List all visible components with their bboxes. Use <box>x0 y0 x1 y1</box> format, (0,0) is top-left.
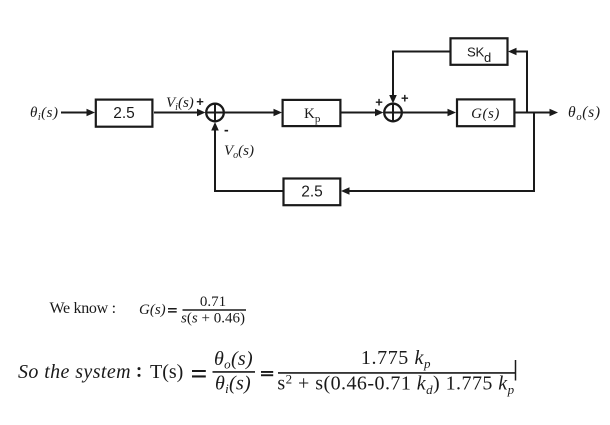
svg-text:θo(s): θo(s) <box>214 348 253 372</box>
fraction theta_o over theta_i numerator <box>214 348 253 372</box>
node theta_i(s) input label <box>30 105 58 123</box>
plus sign right at summing junction S2 <box>401 91 409 106</box>
svg-text:θi(s): θi(s) <box>30 105 58 123</box>
wire input to block 2.5a <box>61 109 95 117</box>
label We know <box>50 300 116 317</box>
wire summing junction S1 to block Kp <box>224 109 282 117</box>
svg-text:1.775 kp: 1.775 kp <box>361 347 431 371</box>
wire block SKd output down to summing junction S2 <box>389 52 450 104</box>
plus sign left at summing junction S2 <box>375 95 383 110</box>
main fraction denominator <box>277 372 514 398</box>
svg-text:Vi(s): Vi(s) <box>166 95 194 113</box>
wire summing junction S2 to block G(s) <box>402 109 456 117</box>
colon separator <box>138 367 141 377</box>
wire output node up to block SKd input <box>508 48 527 113</box>
svg-text:2.5: 2.5 <box>113 105 135 122</box>
svg-text:So the system: So the system <box>18 361 131 383</box>
main fraction numerator 1.775 kp <box>361 347 431 371</box>
fraction theta_o over theta_i denominator <box>215 373 251 397</box>
svg-text:+: + <box>401 91 409 106</box>
equation G(s) numerator 0.71 <box>200 294 226 310</box>
svg-text:Vo(s): Vo(s) <box>224 143 254 161</box>
svg-text:G(s): G(s) <box>139 302 166 318</box>
label So the system <box>18 361 131 383</box>
svg-text:θi(s): θi(s) <box>215 373 251 397</box>
svg-text:-: - <box>224 122 229 138</box>
svg-text:We know :: We know : <box>50 300 116 317</box>
block 2.5b (feedback transducer gain) <box>284 179 341 206</box>
equation T(s) lhs <box>150 361 206 383</box>
minus sign at summing junction S1 <box>224 122 229 138</box>
node theta_o(s) output label <box>568 104 601 123</box>
text cursor caret <box>515 360 517 381</box>
svg-text:s(s + 0.46): s(s + 0.46) <box>181 311 245 327</box>
block Kp (proportional gain) <box>283 100 341 126</box>
svg-text:0.71: 0.71 <box>200 294 226 310</box>
plus sign at summing junction S1 <box>196 94 204 109</box>
equation G(s) fraction bar <box>183 309 247 311</box>
equals sign second <box>261 371 273 376</box>
block G(s) (plant) <box>457 99 514 126</box>
fraction theta_o over theta_i bar <box>213 371 256 373</box>
equation G(s) denominator s(s+0.46) <box>181 311 245 327</box>
svg-text:2.5: 2.5 <box>301 184 323 201</box>
summing junction S1 <box>206 104 224 122</box>
block SKd (derivative feedback) <box>451 38 508 65</box>
node V_o(s) label <box>224 143 254 161</box>
summing junction S2 <box>384 104 402 122</box>
svg-text:+: + <box>375 95 383 110</box>
wire block 2.5b to summing junction S1 (negative input) <box>211 122 283 191</box>
svg-text:+: + <box>196 94 204 109</box>
wire block 2.5a to summing junction S1 <box>154 109 206 117</box>
svg-text:s2 + s(0.46-0.71 kd) 1.775 kp: s2 + s(0.46-0.71 kd) 1.775 kp <box>277 372 514 398</box>
svg-text:θo(s): θo(s) <box>568 104 601 123</box>
wire block G(s) to output <box>515 109 558 117</box>
equation G(s) lhs <box>139 302 177 318</box>
svg-text:G(s): G(s) <box>471 106 500 122</box>
svg-text:T(s): T(s) <box>150 361 183 383</box>
block 2.5a (input transducer gain) <box>96 100 153 127</box>
main fraction bar <box>278 372 515 374</box>
node V_i(s) label <box>166 95 194 113</box>
wire output node down to block 2.5b <box>341 113 534 195</box>
wire block Kp to summing junction S2 <box>341 109 384 117</box>
